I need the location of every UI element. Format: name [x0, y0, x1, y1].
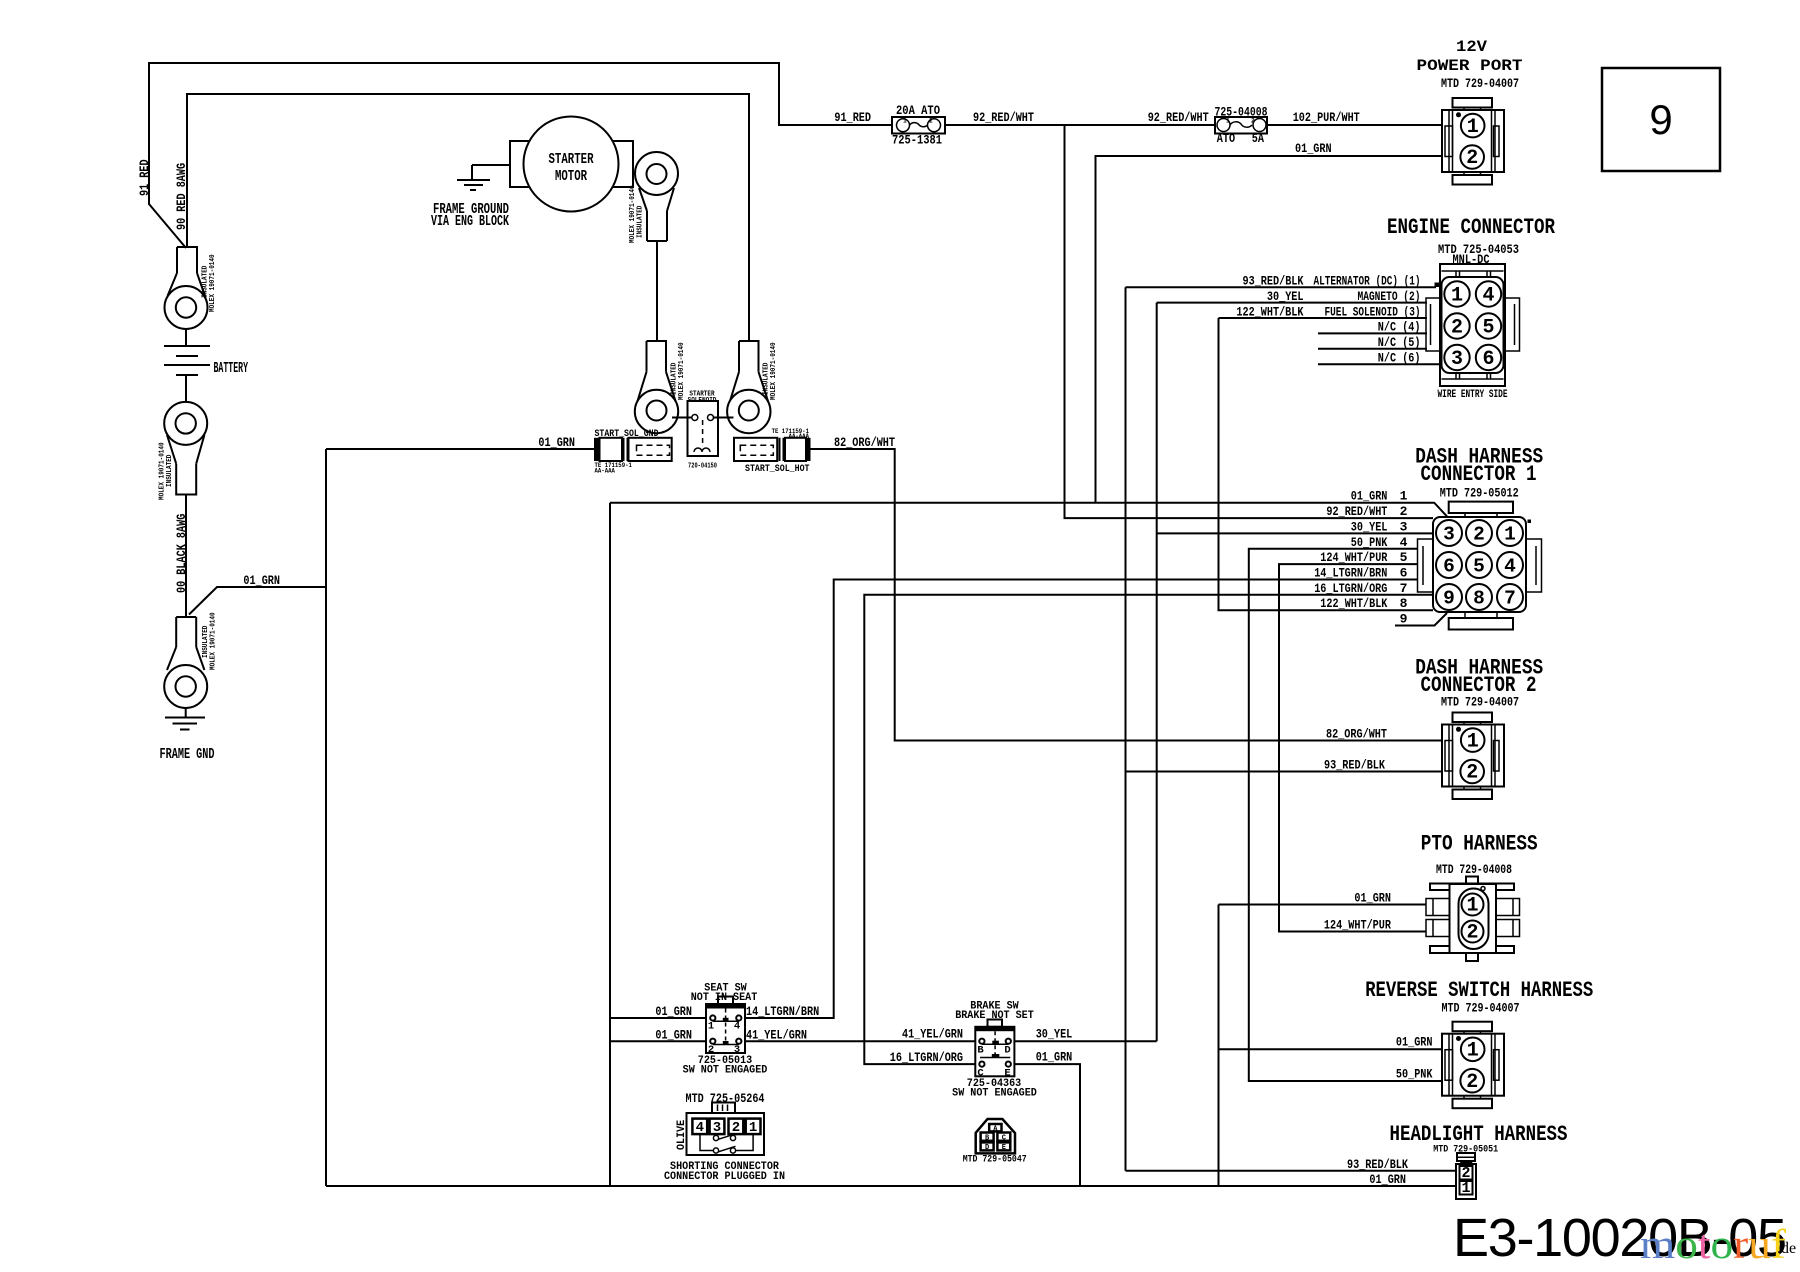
- svg-text:WIRE ENTRY SIDE: WIRE ENTRY SIDE: [1438, 389, 1508, 401]
- svg-text:01_GRN: 01_GRN: [1396, 1035, 1433, 1050]
- svg-text:50_PNK: 50_PNK: [1396, 1067, 1433, 1082]
- svg-text:CONNECTOR PLUGGED IN: CONNECTOR PLUGGED IN: [664, 1171, 785, 1183]
- svg-text:FRAME GND: FRAME GND: [160, 746, 215, 763]
- wire N/C stubs engine pins 4-6: [1318, 333, 1439, 364]
- wire 120_RED_8AWG (starter motor ring to solenoid ring): [656, 241, 658, 341]
- svg-text:8: 8: [1400, 596, 1408, 611]
- svg-text:82_ORG/WHT: 82_ORG/WHT: [1326, 727, 1387, 742]
- svg-text:5: 5: [1482, 317, 1494, 340]
- wire 124_WHT/PUR (dash conn1 pin5 to PTO pin2): [1279, 564, 1426, 931]
- svg-text:2: 2: [929, 118, 933, 125]
- svg-text:124_WHT/PUR: 124_WHT/PUR: [1320, 550, 1387, 565]
- svg-text:720-04150: 720-04150: [688, 463, 717, 471]
- connector 12V power port: [1442, 98, 1504, 185]
- svg-text:MOLEX 19071-0140: MOLEX 19071-0140: [770, 342, 778, 400]
- svg-text:STARTER: STARTER: [549, 151, 594, 168]
- svg-text:6: 6: [1400, 566, 1408, 581]
- svg-text:01_GRN: 01_GRN: [1354, 891, 1391, 906]
- svg-text:MTD 729-05047: MTD 729-05047: [963, 1154, 1027, 1166]
- watermark motoruf.de: [1640, 1221, 1796, 1267]
- svg-text:SOLENOID: SOLENOID: [688, 397, 717, 405]
- svg-text:93_RED/BLK: 93_RED/BLK: [1243, 274, 1304, 289]
- svg-text:92_RED/WHT: 92_RED/WHT: [973, 110, 1034, 125]
- svg-text:9: 9: [1443, 588, 1455, 610]
- svg-text:92_RED/WHT: 92_RED/WHT: [1148, 110, 1209, 125]
- svg-text:START_SOL_GND: START_SOL_GND: [595, 428, 659, 440]
- svg-text:1: 1: [1461, 1180, 1470, 1197]
- wire 14_LTGRN/BRN (seat switch pin4 to dash conn1 pin6): [745, 580, 1418, 1019]
- svg-text:MTD 729-04007: MTD 729-04007: [1442, 1001, 1520, 1016]
- wire 00_BLACK_8AWG (battery negative): [185, 329, 187, 402]
- svg-text:01_GRN: 01_GRN: [538, 435, 575, 450]
- svg-text:.de: .de: [1777, 1240, 1796, 1257]
- svg-text:MOTOR: MOTOR: [555, 168, 587, 185]
- svg-text:1: 1: [749, 1120, 757, 1136]
- svg-text:91_RED: 91_RED: [834, 110, 871, 125]
- svg-text:6: 6: [1482, 348, 1494, 371]
- svg-text:ATO: ATO: [1217, 131, 1235, 146]
- svg-text:SW NOT ENGAGED: SW NOT ENGAGED: [952, 1088, 1037, 1100]
- svg-text:725-04008: 725-04008: [1215, 105, 1268, 120]
- ring terminal (frame ground): [164, 617, 207, 718]
- svg-text:3: 3: [734, 1044, 740, 1056]
- connector PTO harness: [1426, 877, 1520, 962]
- svg-text:4: 4: [1482, 285, 1494, 308]
- svg-text:122_WHT/BLK: 122_WHT/BLK: [1236, 304, 1303, 319]
- svg-text:102_PUR/WHT: 102_PUR/WHT: [1293, 110, 1360, 125]
- connector headlight harness: [1456, 1153, 1476, 1199]
- svg-text:9: 9: [1649, 96, 1672, 143]
- connector engine 6-pin MNL-DC: [1426, 264, 1520, 401]
- fuse ATO 5A 725-04008: [1215, 105, 1268, 147]
- svg-text:41_YEL/GRN: 41_YEL/GRN: [746, 1027, 807, 1042]
- svg-text:8: 8: [1473, 588, 1485, 610]
- wire 91_RED (battery + to main fuse): [149, 63, 892, 248]
- svg-text:motoruf: motoruf: [1640, 1221, 1786, 1267]
- svg-text:N/C (5): N/C (5): [1378, 335, 1421, 350]
- svg-text:1: 1: [708, 1021, 714, 1033]
- svg-text:50_PNK: 50_PNK: [1351, 535, 1388, 550]
- brake switch: [952, 1001, 1037, 1100]
- wire 30_YEL net (magneto to dash conn1 pin3 and brake switch D): [1014, 303, 1433, 1042]
- svg-text:41_YEL/GRN: 41_YEL/GRN: [902, 1027, 963, 1042]
- svg-text:01_GRN: 01_GRN: [1036, 1050, 1073, 1065]
- seat switch: [683, 983, 768, 1077]
- spade connector START_SOL_HOT: [734, 428, 811, 475]
- svg-text:MTD 729-04008: MTD 729-04008: [1436, 862, 1512, 877]
- svg-text:D: D: [1004, 1044, 1010, 1056]
- ground frame gnd symbol: [165, 718, 205, 730]
- page number box 9: [1602, 68, 1720, 171]
- wire 90_RED_8AWG (battery + to starter solenoid hot ring): [187, 94, 749, 341]
- wire starter motor ground link: [472, 165, 510, 180]
- wire 122_WHT/BLK (fuel solenoid to dash conn1 pin8): [1219, 318, 1434, 610]
- svg-text:3: 3: [1400, 519, 1408, 534]
- svg-text:3: 3: [713, 1120, 721, 1136]
- svg-text:01_GRN: 01_GRN: [1351, 489, 1388, 504]
- svg-text:93_RED/BLK: 93_RED/BLK: [1324, 758, 1385, 773]
- svg-text:01_GRN: 01_GRN: [243, 573, 280, 588]
- wire 16_LTGRN/ORG (dash conn1 pin7 to brake switch C): [864, 595, 1433, 1064]
- svg-text:122_WHT/BLK: 122_WHT/BLK: [1320, 596, 1387, 611]
- svg-text:01_GRN: 01_GRN: [1369, 1172, 1406, 1187]
- svg-text:2: 2: [732, 1120, 740, 1136]
- svg-text:1: 1: [903, 118, 907, 125]
- spade connector START_SOL_GND: [594, 428, 672, 475]
- svg-text:N/C (4): N/C (4): [1378, 320, 1421, 335]
- wire 93_RED/BLK net (alternator to conn2 pin2 and headlight pin2): [1126, 287, 1457, 1171]
- svg-text:93_RED/BLK: 93_RED/BLK: [1347, 1157, 1408, 1172]
- wire 92_RED/WHT net (fuse to fuse to power port pin1, branch to dash conn1 pin2): [945, 125, 1433, 518]
- svg-text:MTD 729-04007: MTD 729-04007: [1441, 76, 1519, 91]
- svg-text:3: 3: [1443, 524, 1455, 546]
- svg-text:2: 2: [1466, 147, 1478, 170]
- svg-text:2: 2: [1451, 317, 1463, 340]
- svg-text:725-1381: 725-1381: [892, 133, 942, 148]
- ring terminal (solenoid hot side): [727, 341, 770, 433]
- svg-text:ENGINE CONNECTOR: ENGINE CONNECTOR: [1387, 215, 1556, 240]
- svg-text:92_RED/WHT: 92_RED/WHT: [1326, 504, 1387, 519]
- connector dash harness 1 (9-pin): [1418, 502, 1542, 630]
- svg-text:01_GRN: 01_GRN: [1295, 141, 1332, 156]
- svg-text:C: C: [1002, 1134, 1006, 1142]
- svg-text:4: 4: [734, 1021, 740, 1033]
- svg-text:AA-AAA: AA-AAA: [595, 468, 616, 475]
- svg-text:INSULATED: INSULATED: [166, 455, 174, 487]
- svg-text:MTD 729-05012: MTD 729-05012: [1440, 486, 1519, 501]
- svg-text:INSULATED: INSULATED: [637, 206, 645, 238]
- svg-text:30_YEL: 30_YEL: [1036, 1027, 1073, 1042]
- svg-text:2: 2: [708, 1044, 714, 1056]
- svg-text:MOLEX 19071-0140: MOLEX 19071-0140: [210, 612, 218, 670]
- svg-text:PTO HARNESS: PTO HARNESS: [1421, 832, 1538, 857]
- svg-text:30_YEL: 30_YEL: [1267, 289, 1304, 304]
- svg-text:124_WHT/PUR: 124_WHT/PUR: [1324, 918, 1391, 933]
- svg-text:D: D: [985, 1144, 989, 1152]
- svg-text:1: 1: [1466, 895, 1478, 918]
- svg-text:1: 1: [1400, 489, 1408, 504]
- ring terminal (battery positive): [165, 247, 208, 329]
- svg-text:5A: 5A: [1252, 131, 1264, 146]
- wire 102_PUR/WHT (fuse to 12V power port pin 1): [1267, 124, 1442, 126]
- svg-text:82_ORG/WHT: 82_ORG/WHT: [834, 435, 895, 450]
- svg-text:12V: 12V: [1456, 38, 1487, 56]
- starter solenoid: [672, 391, 734, 471]
- svg-text:MAGNETO (2): MAGNETO (2): [1358, 289, 1421, 304]
- wire 82_ORG/WHT (start sol hot to dash conn2 pin1): [810, 449, 1442, 741]
- wire 41_YEL/GRN (seat switch pin3 to brake switch B): [745, 1040, 975, 1042]
- svg-text:MOLEX 19071-0140: MOLEX 19071-0140: [678, 342, 686, 400]
- svg-text:7: 7: [1400, 581, 1408, 596]
- svg-text:90_RED_8AWG: 90_RED_8AWG: [174, 163, 189, 230]
- svg-text:91_RED: 91_RED: [137, 159, 152, 196]
- svg-text:16_LTGRN/ORG: 16_LTGRN/ORG: [890, 1050, 963, 1065]
- svg-text:01_GRN: 01_GRN: [655, 1004, 692, 1019]
- svg-text:BATTERY: BATTERY: [214, 360, 249, 377]
- svg-text:16_LTGRN/ORG: 16_LTGRN/ORG: [1314, 581, 1387, 596]
- wire 50_PNK (dash conn1 pin4 to reverse switch pin2): [1249, 549, 1442, 1081]
- svg-text:30_YEL: 30_YEL: [1351, 519, 1388, 534]
- svg-text:2: 2: [1473, 524, 1485, 546]
- svg-text:VIA ENG BLOCK: VIA ENG BLOCK: [431, 213, 509, 230]
- svg-text:CONNECTOR 1: CONNECTOR 1: [1421, 462, 1537, 487]
- svg-text:ALTERNATOR (DC) (1): ALTERNATOR (DC) (1): [1314, 274, 1421, 289]
- svg-text:2: 2: [1400, 504, 1408, 519]
- svg-text:9: 9: [1400, 612, 1408, 627]
- svg-text:E: E: [1002, 1144, 1006, 1152]
- svg-text:4: 4: [1504, 556, 1516, 578]
- connector reverse switch harness: [1442, 1022, 1504, 1108]
- ring terminal (battery negative): [164, 402, 207, 495]
- svg-text:3: 3: [1451, 348, 1463, 371]
- svg-text:MOLEX 19071-0140: MOLEX 19071-0140: [209, 254, 217, 312]
- starter motor: [510, 117, 633, 212]
- fuse 20A ATO 725-1381: [892, 103, 945, 148]
- ground frame ground via eng block: [457, 180, 490, 190]
- svg-text:4: 4: [696, 1120, 704, 1136]
- svg-text:4: 4: [1400, 535, 1408, 550]
- connector dash harness 2: [1442, 713, 1504, 800]
- ring terminal (solenoid gnd side): [635, 341, 678, 433]
- wire 01_GRN net (ground distribution): [186, 156, 1456, 1186]
- svg-text:14_LTGRN/BRN: 14_LTGRN/BRN: [746, 1004, 819, 1019]
- svg-text:20A ATO: 20A ATO: [896, 103, 940, 118]
- svg-text:B: B: [977, 1044, 984, 1056]
- svg-text:N/C (6): N/C (6): [1378, 351, 1421, 366]
- shorting connector MTD 725-05264: [664, 1091, 785, 1183]
- svg-text:POWER PORT: POWER PORT: [1417, 57, 1523, 75]
- svg-text:OLIVE: OLIVE: [676, 1119, 688, 1150]
- svg-text:FUEL SOLENOID (3): FUEL SOLENOID (3): [1325, 304, 1421, 319]
- svg-text:01_GRN: 01_GRN: [655, 1027, 692, 1042]
- svg-text:SW NOT ENGAGED: SW NOT ENGAGED: [683, 1065, 768, 1077]
- svg-text:MTD 729-04007: MTD 729-04007: [1441, 695, 1519, 710]
- svg-text:00_BLACK_8AWG: 00_BLACK_8AWG: [174, 514, 189, 593]
- wire dash conn1 pin9 stub: [1395, 613, 1447, 626]
- svg-text:START_SOL_HOT: START_SOL_HOT: [745, 463, 810, 475]
- svg-text:REVERSE SWITCH HARNESS: REVERSE SWITCH HARNESS: [1365, 978, 1593, 1003]
- battery: [164, 346, 248, 377]
- svg-text:2: 2: [1466, 922, 1478, 945]
- svg-text:7: 7: [1504, 588, 1516, 610]
- svg-text:14_LTGRN/BRN: 14_LTGRN/BRN: [1314, 566, 1387, 581]
- svg-text:6: 6: [1443, 556, 1455, 578]
- svg-text:5: 5: [1473, 556, 1485, 578]
- ring terminal (starter motor output): [635, 152, 678, 241]
- svg-text:NOT IN SEAT: NOT IN SEAT: [691, 992, 758, 1004]
- svg-text:AA-AAA: AA-AAA: [789, 433, 810, 440]
- svg-text:5: 5: [1400, 550, 1408, 565]
- svg-text:1: 1: [1451, 285, 1463, 308]
- svg-text:1: 1: [1467, 116, 1479, 139]
- svg-text:1: 1: [1504, 524, 1516, 546]
- connector MTD 729-05047 (house): [963, 1119, 1027, 1166]
